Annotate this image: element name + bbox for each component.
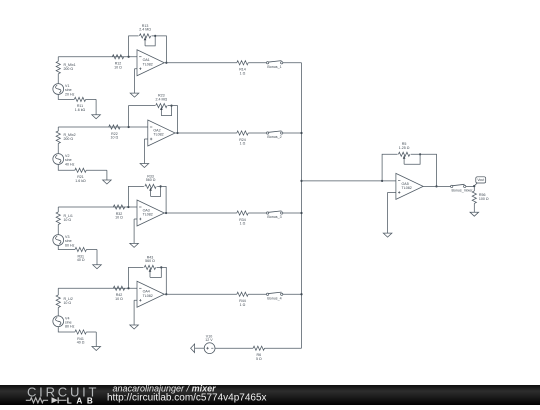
potentiometer R13: [139, 24, 156, 46]
resistor R11: [74, 97, 85, 112]
wire: [128, 186, 144, 207]
wire: [283, 293, 302, 295]
node junction: [300, 180, 302, 182]
wire: [157, 267, 167, 294]
wire: [265, 347, 302, 349]
svg-text:LAB: LAB: [67, 396, 93, 405]
wire: [473, 203, 475, 212]
resistor R6: [253, 346, 264, 361]
wire: [58, 327, 75, 332]
node junction: [300, 293, 302, 295]
resistor R_Mix2: [56, 131, 75, 143]
ground: [130, 300, 139, 329]
wire: [57, 57, 59, 62]
wire bus: [301, 63, 303, 348]
ground: [130, 219, 139, 247]
op-amp OA5: [396, 173, 423, 199]
wire: [134, 299, 137, 301]
svg-text:80 Hz: 80 Hz: [65, 325, 75, 329]
node junction: [127, 206, 129, 208]
ground: [383, 192, 392, 237]
wire: [86, 98, 96, 100]
svg-text:10 Ω: 10 Ω: [115, 216, 123, 220]
svg-text:1.6 kΩ: 1.6 kΩ: [75, 108, 86, 112]
wire: [58, 56, 128, 58]
wire: [248, 293, 266, 295]
wire: [248, 212, 266, 214]
potentiometer R5: [398, 142, 421, 164]
svg-text:1.6 kΩ: 1.6 kΩ: [75, 179, 86, 183]
svg-text:Bonus_mixer: Bonus_mixer: [452, 188, 474, 192]
svg-text:TL082: TL082: [402, 186, 412, 190]
voltage source V10: [204, 334, 215, 353]
wire: [128, 206, 137, 208]
potentiometer R23: [156, 94, 173, 116]
node junction: [165, 62, 167, 64]
resistor R21: [75, 168, 86, 183]
node junction: [165, 212, 167, 214]
ground: [103, 170, 112, 184]
node junction: [165, 293, 167, 295]
voltage source V3: [53, 235, 75, 248]
node junction: [127, 287, 129, 289]
ground: [130, 69, 139, 97]
svg-text:1 Ω: 1 Ω: [240, 222, 246, 226]
ground: [93, 250, 102, 269]
wire: [57, 288, 59, 295]
svg-text:2.4 MΩ: 2.4 MΩ: [156, 97, 168, 101]
svg-text:10 Ω: 10 Ω: [111, 136, 119, 140]
wire: [86, 169, 107, 171]
svg-text:40 Ω: 40 Ω: [77, 258, 85, 262]
svg-text:Bonus_2: Bonus_2: [267, 135, 281, 139]
resistor R_Mix1: [56, 61, 75, 73]
op-amp OA2: [148, 120, 175, 146]
wire: [129, 126, 148, 128]
resistor R42: [113, 286, 124, 301]
resistor R44: [237, 292, 248, 307]
node junction: [300, 132, 302, 134]
svg-text:Vout: Vout: [477, 178, 484, 182]
node junction: [128, 126, 130, 128]
svg-text:560 Ω: 560 Ω: [146, 178, 156, 182]
wire: [134, 218, 137, 220]
svg-text:100 Ω: 100 Ω: [479, 197, 489, 201]
svg-text:1 Ω: 1 Ω: [240, 71, 246, 75]
wire: [164, 293, 237, 295]
resistor R34: [237, 211, 248, 226]
wire: [302, 180, 396, 182]
wire: [129, 267, 144, 288]
svg-text:10 Ω: 10 Ω: [115, 297, 123, 301]
resistor R24: [237, 131, 248, 146]
wire: [58, 245, 75, 249]
resistor R_Li1: [56, 212, 73, 224]
svg-text:40 Hz: 40 Hz: [65, 162, 75, 166]
wire: [466, 185, 474, 187]
wire: [129, 36, 139, 57]
wire: [58, 94, 74, 99]
svg-text:560 Ω: 560 Ω: [145, 259, 155, 263]
switch Bonus_3: [266, 211, 282, 219]
CircuitLab logo: [26, 384, 97, 405]
switch Bonus_1: [266, 61, 282, 69]
svg-text:TL082: TL082: [143, 62, 153, 66]
wire: [57, 74, 59, 84]
svg-text:http://circuitlab.com/c5774v4p: http://circuitlab.com/c5774v4p7465x: [107, 393, 267, 404]
svg-text:1.25 Ω: 1.25 Ω: [399, 146, 410, 150]
svg-text:200 Ω: 200 Ω: [63, 67, 73, 71]
wire: [168, 106, 178, 133]
wire: [57, 225, 59, 235]
wire: [283, 62, 302, 64]
wire: [58, 164, 75, 170]
ground: [140, 139, 149, 168]
wire: [164, 62, 237, 64]
resistor R31: [75, 247, 86, 262]
svg-text:Bonus_4: Bonus_4: [267, 296, 281, 300]
ground: [92, 332, 101, 351]
node junction: [300, 212, 302, 214]
resistor R14: [237, 61, 248, 76]
wire: [411, 154, 437, 186]
wire: [58, 287, 128, 289]
wire: [57, 144, 59, 154]
wire: [388, 191, 396, 193]
resistor R12: [112, 55, 123, 70]
resistor R32: [113, 205, 124, 220]
wire: [175, 132, 237, 134]
wire: [129, 106, 156, 127]
resistor R22: [109, 125, 120, 140]
wire: [423, 185, 450, 187]
node junction: [381, 180, 383, 182]
svg-text:TL082: TL082: [143, 213, 153, 217]
wire: [57, 207, 59, 212]
svg-text:5 Ω: 5 Ω: [256, 357, 262, 361]
wire: [382, 154, 398, 181]
svg-text:TL082: TL082: [143, 294, 153, 298]
svg-text:1 Ω: 1 Ω: [240, 142, 246, 146]
switch Bonus_2: [266, 131, 282, 139]
svg-text:200 Ω: 200 Ω: [63, 137, 73, 141]
potentiometer R43: [144, 255, 162, 277]
wire: [57, 308, 59, 316]
voltage source V4: [53, 316, 75, 329]
node junction: [435, 185, 437, 187]
node junction: [128, 56, 130, 58]
resistor R56: [472, 191, 489, 203]
wire: [58, 206, 128, 208]
ground: [92, 99, 101, 118]
op-amp OA3: [137, 200, 164, 226]
wire: [248, 132, 266, 134]
wire: [215, 347, 253, 349]
svg-text:40 Ω: 40 Ω: [77, 341, 85, 345]
wire: [283, 132, 302, 134]
wire: [135, 68, 138, 70]
svg-text:1 Ω: 1 Ω: [240, 303, 246, 307]
wire: [58, 126, 128, 128]
op-amp OA4: [137, 281, 164, 307]
svg-text:10 Ω: 10 Ω: [63, 301, 71, 305]
wire: [86, 249, 97, 251]
wire: [86, 331, 96, 333]
wire: [283, 212, 302, 214]
resistor R_Li2: [56, 295, 73, 307]
node Vout flag: [474, 177, 485, 186]
wire: [248, 62, 266, 64]
wire: [164, 212, 237, 214]
wire: [157, 186, 166, 213]
svg-text:10 Ω: 10 Ω: [63, 218, 71, 222]
svg-text:60 Hz: 60 Hz: [65, 243, 75, 247]
node junction: [176, 132, 178, 134]
wire: [473, 186, 475, 191]
svg-text:TL082: TL082: [153, 133, 163, 137]
op-amp OA1: [137, 50, 164, 76]
svg-text:12 V: 12 V: [205, 338, 213, 342]
ground: [191, 344, 205, 353]
wire: [57, 127, 59, 131]
resistor R41: [75, 330, 86, 345]
voltage source V1: [53, 84, 75, 97]
ground: [470, 212, 479, 216]
wire: [144, 138, 147, 140]
voltage source V2: [53, 154, 75, 167]
switch Bonus_4: [266, 292, 282, 300]
wire: [129, 56, 137, 58]
node junction: [473, 185, 475, 187]
switch Bonus_mixer: [451, 184, 474, 192]
svg-text:20 Hz: 20 Hz: [65, 92, 75, 96]
svg-text:2.4 MΩ: 2.4 MΩ: [139, 28, 151, 32]
wire: [152, 36, 167, 63]
potentiometer R33: [145, 174, 162, 196]
wire: [129, 287, 138, 289]
svg-text:10 Ω: 10 Ω: [114, 65, 122, 69]
svg-text:Bonus_3: Bonus_3: [267, 215, 281, 219]
svg-text:Bonus_1: Bonus_1: [267, 65, 281, 69]
